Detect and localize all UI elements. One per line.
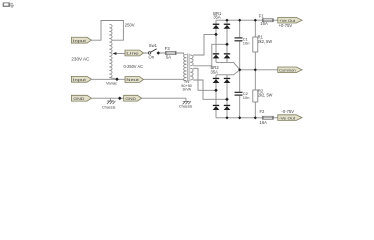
junction: common rail at R2 <box>254 68 257 71</box>
svg-text:Neut: Neut <box>126 77 140 82</box>
junction: BR2 AC left <box>214 89 218 93</box>
wire: bridge 2 right column <box>226 75 228 118</box>
wire: secondary 1 top to bridge 1 left <box>193 34 216 55</box>
svg-text:10n: 10n <box>243 41 250 46</box>
junction: BR1 AC right <box>225 43 229 47</box>
junction: BR2 AC right <box>225 98 229 102</box>
port GND mid <box>124 95 142 101</box>
wire: secondary 2 top to bridge 2 left <box>193 68 216 90</box>
svg-text:-Ve Out: -Ve Out <box>279 115 296 120</box>
resistor R2 <box>253 89 273 102</box>
wire: Line port through switch and fuse to transformer primary <box>144 53 184 55</box>
wire: bridge 2 positive bar to common <box>216 70 240 75</box>
wire: variac winding bottom <box>109 78 117 80</box>
svg-text:Sw1: Sw1 <box>149 43 158 48</box>
junction: variac bottom <box>115 77 119 81</box>
wire: bridge 1 left column <box>215 20 217 62</box>
wire: negative rail <box>216 117 278 119</box>
wire: variac wiper to Line port <box>115 53 127 55</box>
port Common <box>278 67 302 73</box>
svg-text:-0-75V: -0-75V <box>282 109 295 114</box>
wire: bridge 2 left column <box>215 75 217 118</box>
junction: top rail at BR1 right <box>225 19 228 22</box>
svg-text:1kVA: 1kVA <box>182 87 191 91</box>
wire: Input live up and over to variac 250V tap <box>91 21 123 41</box>
svg-text:0-250V AC: 0-250V AC <box>124 64 144 69</box>
port Input live <box>71 37 91 43</box>
svg-text:250V: 250V <box>125 22 135 27</box>
variac wiper arrow <box>113 52 117 55</box>
junction: bottom rail at R2 <box>254 116 257 119</box>
svg-text:+0-75V: +0-75V <box>279 23 293 28</box>
wire: positive rail <box>216 19 278 21</box>
junction: bottom rail at C2 <box>238 116 241 119</box>
svg-text:Input: Input <box>73 38 87 43</box>
wire: Input neutral along variac bottom to transformer primary <box>91 79 183 80</box>
wire: bridge 1 negative bar to common <box>216 62 240 69</box>
svg-text:GND: GND <box>73 96 84 101</box>
junction: top rail at R1 <box>254 19 257 22</box>
port Input neutral <box>71 76 91 82</box>
wire: C2 and R2 columns <box>240 70 256 118</box>
svg-text:Common: Common <box>279 68 296 73</box>
svg-text:Chassis: Chassis <box>179 105 193 109</box>
svg-text:10n: 10n <box>243 95 250 100</box>
fuse F3 primary 5A <box>165 46 176 60</box>
broken image icon <box>3 2 14 7</box>
bridge rectifier BR2 35A <box>211 65 231 110</box>
transformer Tr1 <box>181 54 193 92</box>
bridge rectifier BR1 35A <box>213 11 231 59</box>
svg-text:F3: F3 <box>165 46 171 51</box>
svg-text:Chassis: Chassis <box>102 106 116 110</box>
resistor R1 <box>253 34 272 52</box>
chassis ground 2 <box>179 98 193 108</box>
capacitor C2 <box>235 91 250 100</box>
port Neut <box>125 77 144 83</box>
svg-text:2k2, 5W: 2k2, 5W <box>258 93 273 98</box>
wire: GND to chassis grounds <box>91 97 186 99</box>
wire: secondary 2 bottom to bridge 2 right <box>193 80 227 99</box>
wire: common rail <box>240 69 278 71</box>
svg-text:16A: 16A <box>260 120 268 125</box>
junction: BR1 AC left <box>214 33 218 37</box>
svg-text:2k2, 5W: 2k2, 5W <box>258 39 273 44</box>
capacitor C1 <box>235 36 250 45</box>
svg-text:35A: 35A <box>211 69 219 74</box>
svg-text:Line: Line <box>126 51 140 56</box>
variac T1 winding <box>109 24 112 77</box>
svg-text:On: On <box>149 54 155 59</box>
port GND left <box>71 95 91 101</box>
svg-text:35A: 35A <box>213 15 221 20</box>
fuse F2 16A <box>260 109 274 125</box>
port -Ve Out <box>278 115 302 121</box>
junction: switch output <box>157 51 161 55</box>
svg-text:F2: F2 <box>260 109 266 114</box>
chassis ground 1 <box>102 98 116 109</box>
wire: bridge 1 right column <box>226 20 228 62</box>
port Line <box>125 50 144 56</box>
svg-text:230V AC: 230V AC <box>71 57 89 62</box>
svg-text:Input: Input <box>73 77 87 82</box>
port +Ve Out <box>278 17 302 23</box>
svg-text:5A: 5A <box>166 54 171 59</box>
wire: secondary 1 bottom to bridge 1 right <box>193 44 227 66</box>
switch Sw1 <box>148 43 157 59</box>
svg-text:Variac: Variac <box>106 81 117 86</box>
wire: C1 and R1 columns <box>240 20 256 70</box>
junction: top rail at C1 <box>238 19 241 22</box>
svg-text:F1: F1 <box>259 13 265 18</box>
junction: common rail at C columns <box>238 68 241 71</box>
fuse F1 16A <box>259 13 274 26</box>
junction: ground to chassis 1 <box>118 97 122 101</box>
junction: bottom rail at BR2 right <box>225 116 228 119</box>
svg-text:GND: GND <box>125 96 136 101</box>
svg-text:16A: 16A <box>260 21 268 26</box>
